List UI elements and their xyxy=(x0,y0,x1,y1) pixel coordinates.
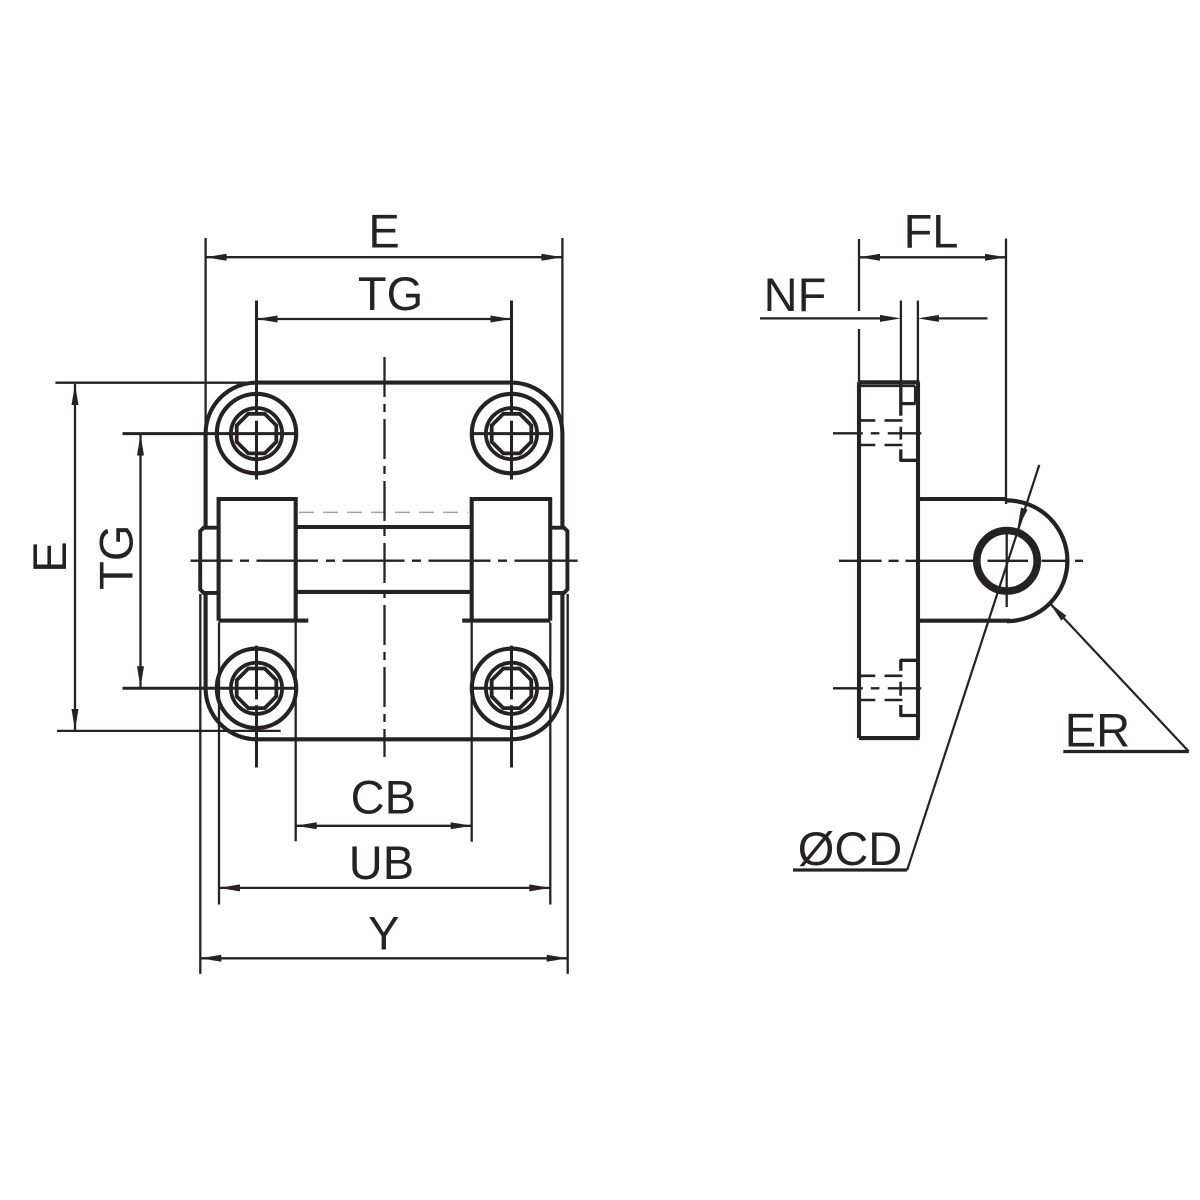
svg-text:ER: ER xyxy=(1065,703,1130,756)
dimension NF: dimension line left part xyxy=(760,317,881,319)
inner face line below top edge xyxy=(860,385,915,388)
upper counterbore lower step xyxy=(900,449,918,461)
pin bore vertical crosshair xyxy=(1006,527,1008,607)
bolt hole bottom-right: head circle xyxy=(486,663,537,714)
arrowheads Y xyxy=(200,955,221,962)
plate outline front view xyxy=(206,383,563,740)
upper hole hidden lines xyxy=(860,420,903,445)
vertical centreline front view xyxy=(383,357,385,757)
bolt hole bottom-right: counterbore circle xyxy=(472,649,551,728)
dimension E horizontal: dimension line xyxy=(206,256,563,258)
svg-text:NF: NF xyxy=(764,268,827,321)
arrowheads E vertical xyxy=(72,384,79,405)
lug bottom line xyxy=(918,619,1010,623)
leader line OCD xyxy=(907,465,1039,870)
arrowheads TG horizontal xyxy=(257,316,278,323)
lower counterbore notch xyxy=(900,660,918,671)
dimension CB: dimension line xyxy=(296,825,472,827)
lower hole centre tick xyxy=(899,682,902,696)
arrowheads CB xyxy=(296,822,317,829)
crosshair top-left hole xyxy=(123,301,297,480)
dimension Y: dimension line xyxy=(200,957,567,959)
arrowheads UB xyxy=(219,884,240,891)
underline ER xyxy=(1063,750,1189,753)
upper counterbore notch xyxy=(901,383,916,416)
svg-text:CB: CB xyxy=(351,771,416,824)
dimension NF: extension lines xyxy=(901,301,918,383)
underline OCD xyxy=(793,868,907,871)
upper hole centreline xyxy=(833,432,921,434)
pivot axis centreline side view xyxy=(839,560,1083,562)
dimension NF: dimension line right part xyxy=(939,317,988,319)
bolt hole bottom-left: head circle xyxy=(231,663,282,714)
leader line ER xyxy=(1050,603,1189,752)
dimension FL: extension lines xyxy=(859,239,1006,505)
dimension FL: dimension line xyxy=(859,256,1006,258)
arrowhead ER leader xyxy=(1050,603,1067,621)
arrowheads E horizontal xyxy=(206,254,227,261)
dimension E vertical: dimension line xyxy=(74,384,76,730)
svg-text:TG: TG xyxy=(358,267,423,320)
svg-text:ØCD: ØCD xyxy=(798,822,902,875)
lug eye boss arc xyxy=(1007,500,1067,621)
left knuckle block xyxy=(219,499,309,621)
pin sleeve bottom line xyxy=(296,590,472,594)
svg-text:E: E xyxy=(368,204,399,257)
arrowheads FL xyxy=(859,254,880,261)
crosshair bottom-right hole xyxy=(470,646,553,768)
arrowheads NF xyxy=(880,315,901,322)
crosshair top-right hole xyxy=(470,301,553,480)
dimension TG horizontal: dimension line xyxy=(257,318,512,320)
flange plate side view outline xyxy=(859,382,920,738)
upper hole centre tick xyxy=(899,427,902,440)
right knuckle block xyxy=(462,499,550,621)
svg-text:Y: Y xyxy=(368,906,399,959)
dimension CB: extension lines xyxy=(296,623,472,842)
bolt hole top-right: counterbore circle xyxy=(472,394,551,473)
horizontal pin axis centreline front view xyxy=(191,560,578,562)
arrowhead OCD leader xyxy=(1018,508,1028,529)
right pin tab xyxy=(549,528,567,593)
dimension E vertical: reference lines xyxy=(55,383,280,731)
svg-text:TG: TG xyxy=(90,525,143,590)
dimension UB: dimension line xyxy=(219,887,550,889)
dimension TG vertical: dimension line xyxy=(139,435,141,688)
bolt hole bottom-left: counterbore circle xyxy=(217,649,296,728)
bolt hole bottom-left: hex socket octagon xyxy=(237,669,277,709)
pin sleeve top line xyxy=(296,525,472,529)
bolt hole top-right: head circle xyxy=(486,408,537,459)
arrowheads TG vertical xyxy=(137,435,144,456)
bolt hole top-left: head circle xyxy=(231,408,282,459)
bolt hole top-left: hex socket octagon xyxy=(237,414,277,454)
dimension E horizontal: extension lines xyxy=(206,238,563,433)
left pin tab xyxy=(200,528,219,593)
bolt hole top-left: counterbore circle xyxy=(217,394,296,473)
svg-text:E: E xyxy=(23,541,76,572)
bolt hole top-right: hex socket octagon xyxy=(492,414,532,454)
svg-text:UB: UB xyxy=(349,836,414,889)
lug top line xyxy=(918,497,1007,501)
svg-text:FL: FL xyxy=(904,204,959,257)
pivot pin bore circle xyxy=(977,531,1037,591)
dimension UB: extension lines xyxy=(219,623,550,905)
lower counterbore lower step xyxy=(900,705,918,716)
crosshair bottom-left hole xyxy=(123,646,297,768)
bolt hole bottom-right: hex socket octagon xyxy=(492,669,532,709)
hidden sleeve line (dashed grey) xyxy=(299,511,468,513)
lower hole hidden lines xyxy=(860,676,903,700)
dimension Y: extension lines xyxy=(200,594,567,974)
lower hole centreline xyxy=(833,687,921,689)
